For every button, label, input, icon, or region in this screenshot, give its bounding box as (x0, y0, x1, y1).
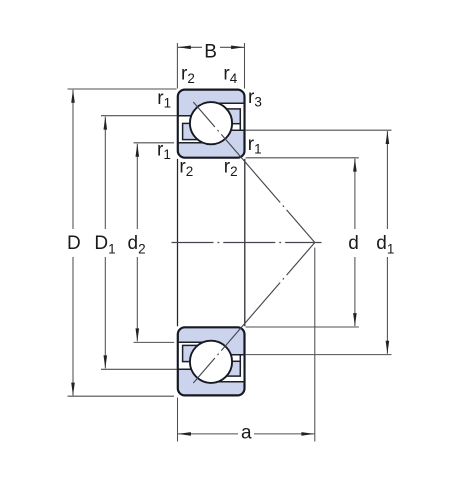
dimension line d2 (136, 144, 138, 229)
extension line d2 bottom (134, 341, 175, 343)
extension line D bottom (68, 395, 175, 397)
extension line d bottom (246, 326, 359, 328)
contact line bottom (193, 243, 314, 384)
svg-text:r2: r2 (224, 157, 238, 179)
extension line D1 top (101, 115, 177, 117)
dimension line B (178, 46, 202, 48)
bore surface line left (177, 159, 179, 326)
svg-text:d: d (348, 233, 359, 254)
svg-text:r3: r3 (248, 87, 262, 109)
svg-text:r1: r1 (248, 134, 262, 156)
extension line a right (from pressure centre) (314, 248, 316, 442)
svg-text:d1: d1 (376, 233, 394, 256)
dimension line D (72, 90, 74, 229)
bore surface line right (244, 159, 246, 326)
svg-text:r4: r4 (223, 64, 237, 86)
svg-text:d2: d2 (128, 233, 146, 256)
svg-text:D1: D1 (94, 233, 115, 256)
dimension line D1 (104, 117, 106, 229)
extension line d1 bottom (246, 354, 392, 356)
svg-text:r2: r2 (181, 64, 195, 86)
svg-text:r1: r1 (157, 88, 171, 110)
extension line D1 bottom (101, 368, 177, 370)
bottom bearing section (mirrored) (178, 327, 245, 395)
top bearing section (178, 90, 245, 158)
bearing axis centerline (172, 242, 322, 244)
extension line d top (246, 157, 359, 159)
contact line top (193, 102, 314, 243)
extension line d2 top (134, 142, 175, 144)
extension line B right (244, 43, 246, 89)
dimension line d1 (386, 131, 388, 229)
svg-text:r2: r2 (179, 157, 193, 179)
svg-text:D: D (67, 233, 81, 254)
extension line a left (177, 398, 179, 442)
svg-text:a: a (241, 423, 252, 444)
extension line d1 top (246, 129, 392, 131)
dimension line a (178, 433, 238, 435)
dimension line d (354, 159, 356, 229)
svg-text:B: B (204, 42, 217, 63)
extension line D top (68, 88, 177, 90)
extension line B left (176, 43, 178, 89)
